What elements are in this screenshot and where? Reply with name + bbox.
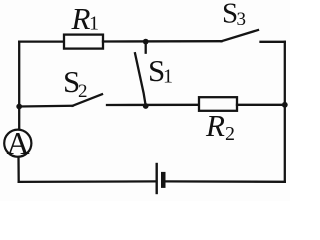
svg-text:3: 3 bbox=[237, 9, 247, 30]
node right middle junction bbox=[282, 102, 288, 108]
svg-text:A: A bbox=[6, 125, 29, 161]
wire top rail left segment bbox=[19, 40, 64, 42]
battery short thick plate bbox=[161, 172, 166, 188]
svg-text:2: 2 bbox=[78, 81, 88, 102]
svg-text:R: R bbox=[205, 108, 225, 143]
svg-text:2: 2 bbox=[225, 123, 235, 145]
wire middle rail from R2 to right rail bbox=[237, 104, 285, 106]
wire left rail upper segment bbox=[18, 42, 20, 130]
svg-text:R: R bbox=[71, 1, 91, 36]
wire left rail lower segment bbox=[17, 157, 20, 182]
ammeter A1 circle bbox=[4, 130, 31, 157]
battery long plate bbox=[155, 164, 157, 193]
resistor R1 bbox=[64, 35, 103, 49]
switch S1 blade bbox=[135, 53, 146, 104]
wire middle rail left segment to S2 pivot bbox=[19, 105, 72, 108]
svg-text:1: 1 bbox=[163, 66, 173, 88]
node left middle junction bbox=[16, 104, 22, 110]
node S1 bottom junction bbox=[143, 103, 149, 109]
wire right rail bbox=[284, 42, 286, 182]
wire top rail from R1 to S3 pivot bbox=[103, 40, 222, 43]
switch S2 blade bbox=[73, 94, 103, 106]
wire middle rail from S2 contact to R2 bbox=[107, 104, 199, 106]
svg-text:1: 1 bbox=[89, 13, 99, 35]
wire bottom rail left segment bbox=[19, 180, 156, 183]
resistor R2 bbox=[199, 97, 237, 111]
switch S3 blade bbox=[222, 30, 259, 41]
wire S3 fixed contact segment bbox=[261, 41, 285, 43]
wire bottom rail right segment bbox=[166, 180, 285, 183]
switch S1 stub from top node bbox=[145, 42, 147, 53]
node top junction bbox=[143, 39, 149, 45]
